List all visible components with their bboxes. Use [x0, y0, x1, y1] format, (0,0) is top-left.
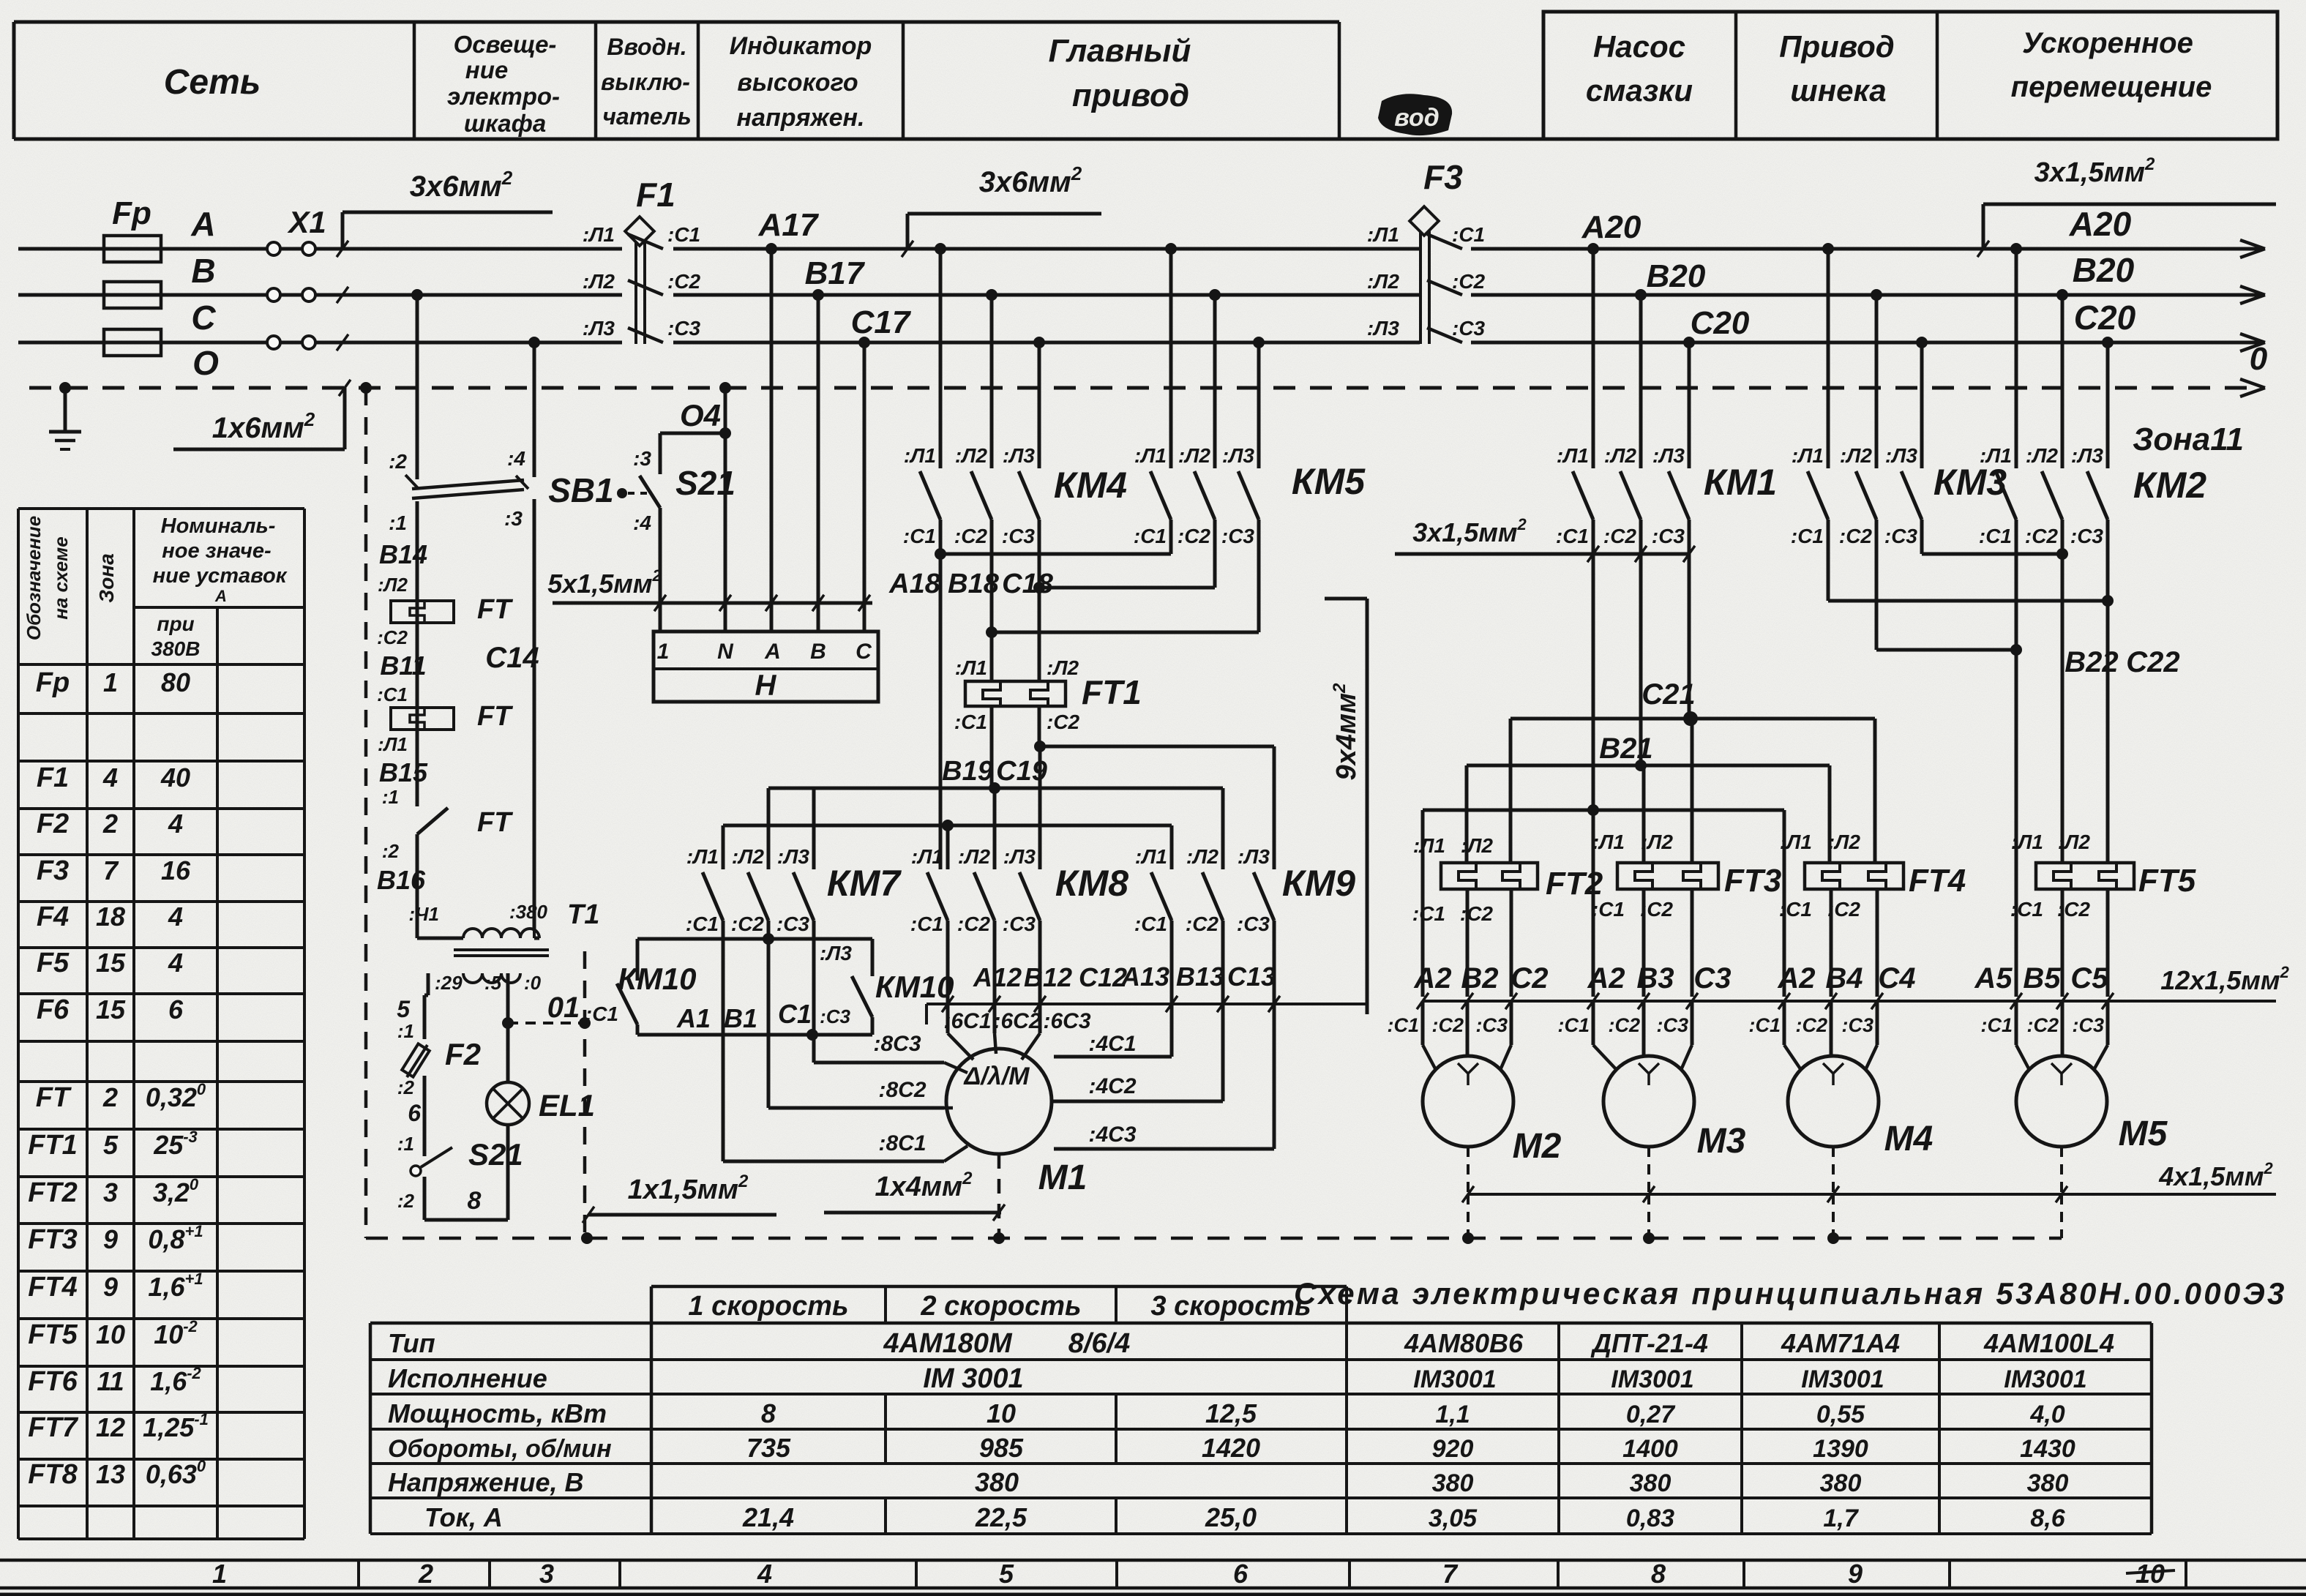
svg-text::1: :1: [382, 786, 399, 808]
svg-text:15: 15: [96, 994, 126, 1024]
svg-text::Л3: :Л3: [1238, 845, 1270, 868]
svg-text:FТ1: FТ1: [1082, 673, 1142, 711]
svg-text:8/6/4: 8/6/4: [1068, 1328, 1131, 1359]
svg-text:вод: вод: [1394, 104, 1439, 132]
svg-text::С2: :С2: [954, 525, 988, 547]
wire C19: [1034, 741, 1046, 752]
svg-text::Л3: :Л3: [1652, 444, 1685, 467]
wire KM3 C2 to KM2 col1: [1876, 648, 2016, 652]
svg-text:F1: F1: [636, 176, 675, 214]
svg-text:1 скорость: 1 скорость: [688, 1291, 848, 1322]
svg-text:8: 8: [468, 1187, 482, 1215]
motor M2: [1423, 1056, 1513, 1147]
wire KM4 col3 down to FT1: [1038, 588, 1041, 681]
svg-text::Л2: :Л2: [732, 845, 765, 868]
contactor КМ3 pole 2: [1871, 289, 1882, 301]
svg-text:Схема электрическая принципиал: Схема электрическая принципиальная 53А80…: [1294, 1276, 2287, 1311]
svg-text::С1: :С1: [1980, 1014, 2013, 1036]
svg-text::С3: :С3: [1003, 913, 1036, 935]
svg-text::С1: :С1: [1452, 223, 1485, 246]
svg-text:С21: С21: [1641, 678, 1695, 711]
svg-text:смазки: смазки: [1586, 73, 1693, 108]
svg-text:А2: А2: [1777, 962, 1815, 994]
wire bus phase A: [18, 247, 622, 251]
svg-text:А12: А12: [973, 962, 1022, 992]
svg-text:М1: М1: [1038, 1158, 1088, 1197]
svg-text::С2: :С2: [1178, 525, 1211, 547]
wire A18 joining KM4/KM5 outputs: [940, 552, 1171, 556]
wire B11: [416, 623, 419, 708]
svg-text:FТ4: FТ4: [28, 1272, 78, 1303]
svg-text::С2: :С2: [1047, 711, 1080, 733]
wire KM4 col1 down: [939, 554, 943, 869]
svg-text:FТ3: FТ3: [1724, 863, 1781, 899]
svg-text:А: А: [214, 587, 227, 605]
fuse-switch F2: [402, 1044, 430, 1076]
svg-text::Л2: :Л2: [1178, 444, 1211, 467]
svg-text::С1: :С1: [1134, 525, 1167, 547]
wire C18: [1039, 586, 1215, 590]
svg-text:КМ8: КМ8: [1055, 863, 1128, 904]
svg-text::29: :29: [435, 972, 463, 994]
motor M4: [1788, 1056, 1879, 1147]
svg-text:А5: А5: [1974, 962, 2013, 994]
svg-text:FТ7: FТ7: [28, 1412, 78, 1443]
svg-text::С2: :С2: [731, 913, 765, 935]
wire to KM7 pole2: [767, 788, 771, 869]
svg-text:1: 1: [657, 640, 670, 664]
svg-text::С3: :С3: [776, 913, 810, 935]
svg-text::С3: :С3: [1841, 1014, 1873, 1036]
wire B17 to H block: [812, 289, 824, 301]
svg-text:4АМ80В6: 4АМ80В6: [1404, 1328, 1524, 1358]
terminal X1 contacts phase B: [267, 288, 280, 301]
svg-text:С20: С20: [1691, 305, 1750, 341]
svg-text:В15: В15: [379, 757, 428, 787]
svg-text::Л3: :Л3: [820, 942, 853, 964]
svg-text:Ускоренное: Ускоренное: [2022, 27, 2193, 59]
svg-text:380: 380: [1820, 1469, 1862, 1497]
svg-text:КМ10: КМ10: [618, 962, 697, 996]
contactor КМ8 pole 1: [927, 872, 948, 921]
svg-text:В12: В12: [1024, 962, 1072, 992]
svg-text:КМ4: КМ4: [1054, 465, 1127, 506]
svg-text:КМ3: КМ3: [1933, 462, 2007, 503]
contactor КМ5 pole 2: [1209, 289, 1221, 301]
contactor КМ3 pole 3: [1916, 337, 1928, 348]
svg-text::Л3: :Л3: [1885, 444, 1918, 467]
svg-text:Х1: Х1: [287, 205, 326, 239]
contactor КМ2 pole 3: [2102, 337, 2114, 348]
svg-text:FТ: FТ: [477, 594, 513, 625]
bottom zone strip: [0, 1559, 2306, 1562]
svg-text::Л3: :Л3: [583, 317, 615, 340]
dashed zone border left: [360, 382, 372, 394]
svg-text:В16: В16: [377, 865, 426, 895]
svg-text:А2: А2: [1587, 962, 1625, 994]
contactor КМ2 pole 2: [2056, 289, 2068, 301]
thermal relay FT5: [2036, 863, 2134, 889]
wire O4 branch from neutral: [719, 382, 731, 394]
svg-text:4АМ180М: 4АМ180М: [883, 1328, 1013, 1359]
switch S21 lower contact: [411, 1166, 421, 1176]
svg-text::Л2: :Л2: [583, 270, 615, 293]
motor data table: [370, 1322, 2152, 1325]
svg-text::С2: :С2: [1603, 525, 1637, 547]
svg-text:Обозначение: Обозначение: [23, 516, 45, 640]
wire KM4 col2 down to FT1: [990, 632, 994, 681]
svg-text::Ч1: :Ч1: [408, 903, 439, 925]
svg-text:FТ2: FТ2: [28, 1177, 78, 1208]
svg-text:8: 8: [761, 1398, 776, 1428]
svg-text::С2: :С2: [1795, 1014, 1827, 1036]
svg-text::С3: :С3: [1656, 1014, 1688, 1036]
strike over zone 10: [2126, 1570, 2175, 1573]
svg-text:SB1: SB1: [548, 471, 613, 509]
svg-text:М5: М5: [2119, 1114, 2168, 1153]
svg-text:КМ7: КМ7: [827, 863, 902, 904]
motor M5: [2016, 1056, 2107, 1147]
svg-text:А20: А20: [1581, 209, 1641, 245]
svg-text::С3: :С3: [1884, 525, 1918, 547]
wire B15: [416, 730, 419, 806]
dashed neutral return bottom: [366, 1237, 2062, 1240]
wire B16: [416, 834, 419, 931]
wire KM7 pole3 feeder: [812, 788, 816, 869]
svg-text:21,4: 21,4: [742, 1502, 794, 1532]
svg-text::С3: :С3: [820, 1005, 850, 1027]
svg-text:13: 13: [96, 1459, 125, 1489]
wire 6 segment: [423, 1076, 427, 1156]
svg-text::Л1: :Л1: [1367, 223, 1399, 246]
svg-text:1х6мм2: 1х6мм2: [212, 408, 315, 444]
svg-text:Fр: Fр: [36, 667, 70, 698]
svg-text::Л2: :Л2: [1641, 831, 1674, 853]
switch S21 upper: [660, 432, 725, 435]
svg-text:С3: С3: [1693, 962, 1731, 994]
svg-text::С2: :С2: [1452, 270, 1486, 293]
svg-text::С1: :С1: [1979, 525, 2012, 547]
svg-text::Л2: :Л2: [2026, 444, 2059, 467]
motor branch wires below cable line: [1421, 1001, 1425, 1045]
thermal relay FT1: [965, 681, 1066, 706]
svg-text:7: 7: [103, 855, 119, 885]
svg-text:1,7: 1,7: [1823, 1505, 1859, 1532]
cable crossing line for M1 (9x4): [926, 1003, 1367, 1005]
svg-text::4: :4: [633, 512, 651, 534]
wire KM9 poles from B19/C19: [1170, 825, 1174, 869]
svg-text:12,5: 12,5: [1205, 1398, 1257, 1428]
svg-text:В21: В21: [1599, 733, 1652, 765]
svg-text::3: :3: [504, 507, 523, 530]
svg-text:11: 11: [97, 1366, 124, 1396]
svg-text::С1: :С1: [2010, 898, 2043, 921]
wire KM8 outputs into M1 top (6C): [946, 921, 950, 1033]
svg-text:4: 4: [102, 763, 118, 793]
svg-text:FТ8: FТ8: [28, 1459, 78, 1490]
svg-text:А: А: [190, 205, 215, 243]
wire C14 right pole down to T1: [533, 521, 536, 931]
wire B21: [1467, 764, 1830, 768]
svg-text:0: 0: [2250, 341, 2268, 377]
svg-text::С1: :С1: [1412, 902, 1445, 925]
wire tap 5 to EL1: [506, 973, 510, 1082]
svg-text::С3: :С3: [1475, 1014, 1508, 1036]
svg-text:40: 40: [160, 763, 190, 793]
svg-text:Сеть: Сеть: [164, 63, 261, 102]
svg-text::Л1: :Л1: [911, 845, 943, 868]
svg-text:В3: В3: [1636, 962, 1674, 994]
svg-text:5: 5: [999, 1559, 1014, 1589]
svg-text::С2: :С2: [1839, 525, 1873, 547]
svg-text:IМ 3001: IМ 3001: [923, 1363, 1023, 1394]
svg-text::С3: :С3: [1237, 913, 1270, 935]
svg-text:16: 16: [161, 855, 191, 885]
contactor КМ8 pole 2: [974, 872, 995, 921]
svg-text:3: 3: [103, 1177, 118, 1207]
svg-text::С3: :С3: [2072, 1014, 2104, 1036]
cable 9x4 bracket: [1366, 599, 1369, 1014]
wire C17 to H block: [858, 337, 870, 348]
svg-text::С1: :С1: [1592, 898, 1625, 921]
svg-text::С1: :С1: [585, 1003, 618, 1025]
svg-text:В: В: [191, 252, 215, 290]
contactor КМ4 pole 1: [935, 243, 946, 255]
switch SB1 (door switch): [411, 289, 423, 301]
svg-text:В2: В2: [1461, 962, 1498, 994]
svg-text:С13: С13: [1227, 962, 1276, 992]
svg-text:С18: С18: [1002, 569, 1054, 599]
svg-text:КМ1: КМ1: [1704, 462, 1777, 503]
svg-text:Насос: Насос: [1593, 29, 1685, 64]
svg-text::Л3: :Л3: [2071, 444, 2104, 467]
svg-text:С5: С5: [2070, 962, 2108, 994]
svg-text:9: 9: [1848, 1559, 1863, 1589]
svg-text:FТ5: FТ5: [2138, 863, 2196, 899]
svg-text:FТ: FТ: [477, 701, 513, 732]
ground symbol: [59, 382, 71, 394]
svg-text::8С1: :8С1: [878, 1131, 926, 1155]
svg-text::С1: :С1: [1779, 898, 1812, 921]
svg-text:15: 15: [96, 948, 126, 978]
motor M3: [1603, 1056, 1694, 1147]
svg-text:01: 01: [547, 992, 580, 1024]
svg-text:В13: В13: [1176, 962, 1224, 992]
contactor KM10 right: [871, 939, 875, 976]
svg-text:напряжен.: напряжен.: [737, 104, 865, 132]
svg-text::Л2: :Л2: [1828, 831, 1861, 853]
wire A1 B1 C1 link: [637, 1033, 872, 1037]
svg-text:С2: С2: [1510, 962, 1548, 994]
svg-text::1: :1: [397, 1133, 414, 1155]
svg-text:380: 380: [1432, 1469, 1474, 1497]
svg-text:О: О: [192, 344, 219, 382]
svg-text:22,5: 22,5: [975, 1502, 1027, 1532]
wire M1 star point down: [997, 1154, 1001, 1238]
svg-text::2: :2: [382, 840, 400, 862]
svg-text:шкафа: шкафа: [464, 110, 546, 137]
svg-text:12х1,5мм2: 12х1,5мм2: [2160, 963, 2289, 995]
svg-text:F3: F3: [37, 855, 69, 886]
svg-text:0,27: 0,27: [1626, 1401, 1676, 1428]
svg-text:10: 10: [96, 1319, 125, 1349]
svg-text:1420: 1420: [1202, 1433, 1260, 1463]
svg-text::2: :2: [397, 1076, 415, 1098]
svg-text::С1: :С1: [1791, 525, 1824, 547]
svg-text::0: :0: [524, 972, 542, 994]
svg-text:С22: С22: [2126, 646, 2179, 678]
svg-text:6: 6: [408, 1100, 421, 1126]
svg-text:4: 4: [757, 1559, 772, 1589]
svg-text:380: 380: [2027, 1469, 2069, 1497]
svg-text:2: 2: [102, 1082, 118, 1112]
svg-text::Л3: :Л3: [777, 845, 810, 868]
wire KM8 pole2: [993, 788, 997, 869]
contactor КМ5 pole 3: [1253, 337, 1265, 348]
dashed return wire right of T1: [583, 951, 587, 1238]
svg-text::С1: :С1: [910, 913, 943, 935]
svg-text::С2: :С2: [2026, 1014, 2059, 1036]
svg-text:Зона11: Зона11: [2133, 422, 2244, 457]
svg-text:В22: В22: [2064, 646, 2118, 678]
thermal relay FT3: [1617, 863, 1718, 889]
wire A17 to H block: [765, 243, 777, 255]
svg-text:В19: В19: [942, 756, 993, 787]
svg-text:380: 380: [975, 1467, 1019, 1497]
thermal contact FT (3): [417, 808, 448, 834]
svg-text:В20: В20: [2073, 251, 2135, 289]
svg-text:IМ3001: IМ3001: [1801, 1365, 1884, 1393]
wire KM1 pole outputs down to M3 branch: [1592, 810, 1595, 997]
svg-text:чатель: чатель: [602, 103, 692, 130]
svg-text::С2: :С2: [1608, 1014, 1640, 1036]
svg-text:F6: F6: [37, 994, 70, 1025]
svg-text:на схеме: на схеме: [50, 536, 72, 619]
svg-text:А: А: [764, 640, 781, 664]
settings table: [18, 507, 304, 510]
svg-text:735: 735: [746, 1433, 791, 1463]
svg-text::3: :3: [633, 447, 651, 470]
svg-text::6С3: :6С3: [1043, 1009, 1090, 1033]
svg-text:ние: ние: [465, 56, 508, 83]
svg-text:С4: С4: [1878, 962, 1915, 994]
svg-text::С3: :С3: [667, 317, 701, 340]
svg-text:М3: М3: [1697, 1122, 1746, 1161]
svg-text:В17: В17: [805, 255, 866, 291]
lamp EL1: [487, 1082, 529, 1125]
svg-text::4С1: :4С1: [1088, 1032, 1136, 1056]
svg-text::Л1: :Л1: [686, 845, 719, 868]
svg-text:ное значе-: ное значе-: [162, 539, 271, 563]
indicator block H: [654, 632, 878, 702]
svg-text::Л2: :Л2: [1604, 444, 1637, 467]
svg-text:12: 12: [96, 1412, 125, 1442]
svg-text::С1: :С1: [954, 711, 987, 733]
svg-text:В18: В18: [948, 569, 1000, 599]
svg-text:А20: А20: [2069, 205, 2132, 243]
svg-text::С2: :С2: [957, 913, 991, 935]
zone header table: [14, 20, 1339, 24]
svg-text::Л1: :Л1: [583, 223, 615, 246]
svg-text:С1: С1: [778, 999, 812, 1029]
svg-text:1430: 1430: [2020, 1435, 2075, 1463]
contactor КМ9 pole 3: [1254, 872, 1274, 921]
svg-text:3,05: 3,05: [1429, 1505, 1478, 1532]
wire bottom loop to EL1: [424, 1218, 508, 1222]
svg-text:IМ3001: IМ3001: [1413, 1365, 1496, 1393]
svg-text::8С2: :8С2: [878, 1078, 926, 1102]
svg-text:6: 6: [1233, 1559, 1249, 1589]
svg-text:4: 4: [168, 948, 183, 978]
svg-text:В4: В4: [1825, 962, 1863, 994]
svg-text::Л1: :Л1: [2011, 831, 2043, 853]
contactor КМ4 pole 2: [986, 289, 997, 301]
svg-text::С3: :С3: [1652, 525, 1685, 547]
svg-text::8С3: :8С3: [873, 1032, 921, 1056]
svg-text::Л3: :Л3: [1367, 317, 1400, 340]
svg-text:S21: S21: [675, 464, 735, 502]
svg-text:КМ5: КМ5: [1292, 461, 1366, 502]
svg-text::Л3: :Л3: [1003, 845, 1036, 868]
svg-text::С2: :С2: [1186, 913, 1219, 935]
svg-text:S21: S21: [468, 1137, 523, 1172]
svg-text:1400: 1400: [1622, 1435, 1678, 1463]
wire phase A distribution (to M2,M3,M4): [1423, 809, 1784, 812]
svg-text::Л2: :Л2: [2058, 831, 2091, 853]
svg-text:В1: В1: [724, 1003, 757, 1033]
svg-text::Л1: :Л1: [378, 733, 408, 755]
svg-text:FТ5: FТ5: [28, 1319, 78, 1350]
svg-text:5: 5: [103, 1130, 119, 1160]
svg-text:FТ1: FТ1: [28, 1130, 78, 1161]
svg-text:920: 920: [1432, 1435, 1474, 1463]
svg-text:4: 4: [168, 902, 183, 932]
svg-text::6С1: :6С1: [943, 1009, 991, 1033]
thermal relay FT4: [1805, 863, 1903, 889]
contactor KM10 left: [617, 984, 637, 1024]
motor M1: [946, 1049, 1052, 1154]
svg-text:6: 6: [168, 994, 184, 1024]
svg-text:25,0: 25,0: [1205, 1502, 1257, 1532]
svg-text:4х1,5мм2: 4х1,5мм2: [2158, 1159, 2273, 1191]
svg-text:5: 5: [397, 996, 411, 1022]
svg-text:С12: С12: [1079, 962, 1127, 992]
svg-text:КМ2: КМ2: [2133, 465, 2206, 506]
svg-text:3х1,5мм2: 3х1,5мм2: [2034, 154, 2155, 188]
contactor КМ7 pole 3: [793, 872, 814, 921]
svg-text:А17: А17: [758, 207, 820, 243]
svg-text::Л1: :Л1: [1780, 831, 1812, 853]
wire KM9 outputs staircase to M1 (4C): [1170, 921, 1174, 1057]
svg-text:80: 80: [161, 667, 190, 697]
wire KM3 C3 to KM2 col2: [1922, 552, 2062, 556]
contactor КМ9 pole 2: [1202, 872, 1223, 921]
svg-text::С2: :С2: [377, 626, 408, 648]
wires FT outputs to cable line: [1466, 889, 1470, 997]
svg-text:Вводн.: Вводн.: [607, 34, 686, 60]
svg-text:1: 1: [103, 667, 118, 697]
svg-text::1: :1: [389, 512, 407, 534]
ink smudge вод: [1378, 94, 1452, 135]
svg-text::4: :4: [507, 447, 525, 470]
svg-text:А13: А13: [1120, 962, 1169, 992]
svg-text::С3: :С3: [1221, 525, 1255, 547]
svg-text:М4: М4: [1884, 1120, 1933, 1158]
svg-text::Л2: :Л2: [1186, 845, 1219, 868]
svg-text:2 скорость: 2 скорость: [920, 1291, 1081, 1322]
svg-text:9: 9: [103, 1224, 118, 1254]
svg-text::С1: :С1: [1748, 1014, 1781, 1036]
